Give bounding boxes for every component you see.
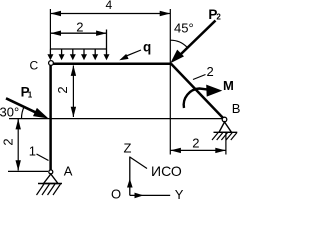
support A base line	[38, 183, 62, 185]
support B hatching	[212, 133, 237, 140]
support A triangle	[44, 174, 59, 184]
wire: mid horizontal line y=118.6	[9, 118, 222, 120]
svg-text:Y: Y	[175, 187, 184, 202]
support B pin circle	[222, 117, 227, 122]
node C circle	[49, 61, 54, 66]
svg-text:4: 4	[106, 0, 113, 12]
svg-text:2: 2	[192, 135, 199, 150]
support A pin circle	[49, 170, 53, 174]
leader for q	[119, 50, 141, 60]
svg-text:2: 2	[55, 86, 70, 93]
wire: extension below B x=225.9	[225, 133, 227, 155]
svg-text:Z: Z	[124, 141, 132, 156]
beam C to node (top member)	[51, 62, 171, 65]
diagonal member node to B	[171, 64, 225, 120]
force P1 arrow	[6, 98, 49, 118]
axis Y line	[130, 194, 170, 196]
svg-text:C: C	[30, 59, 39, 73]
column C to A (left member)	[49, 63, 52, 171]
svg-text:2: 2	[76, 19, 83, 34]
svg-text:2: 2	[216, 13, 221, 22]
inner dimension 2 (vertical)	[71, 65, 76, 117]
svg-text:1: 1	[29, 143, 36, 158]
support B triangle	[219, 122, 232, 132]
wire: bottom-left extension line y=171.4	[8, 170, 48, 172]
left dimension 2 (vertical)	[16, 119, 21, 171]
support A hatching	[37, 184, 61, 195]
moment M arc arrow	[184, 85, 223, 108]
distributed load q	[47, 30, 109, 61]
svg-text:2: 2	[207, 64, 214, 79]
svg-text:1: 1	[28, 91, 33, 100]
svg-text:B: B	[232, 101, 241, 116]
svg-text:2: 2	[1, 138, 16, 145]
wire: dimension 4 line	[50, 11, 170, 16]
svg-text:q: q	[143, 39, 151, 54]
bottom dimension 2	[170, 148, 226, 153]
wire: left extension line x=50.4	[49, 9, 51, 49]
svg-text:A: A	[64, 163, 73, 178]
axis Z line	[129, 157, 131, 196]
svg-text:45°: 45°	[174, 21, 194, 36]
support B base line	[214, 131, 238, 133]
axis Z arrowhead	[127, 179, 133, 188]
wire: right extension line x=170.3 top to bottom	[169, 9, 171, 155]
45 degree arc	[170, 40, 187, 47]
svg-text:M: M	[223, 78, 234, 93]
svg-text:ИСО: ИСО	[151, 163, 182, 179]
wire: dimension 2 top line	[50, 31, 106, 36]
svg-text:30°: 30°	[0, 104, 19, 119]
axis Y arrowhead	[135, 193, 144, 199]
30 degree arc	[21, 106, 24, 118]
svg-text:O: O	[111, 187, 121, 202]
leader ISO	[130, 157, 147, 169]
force P2 arrow	[170, 21, 215, 64]
